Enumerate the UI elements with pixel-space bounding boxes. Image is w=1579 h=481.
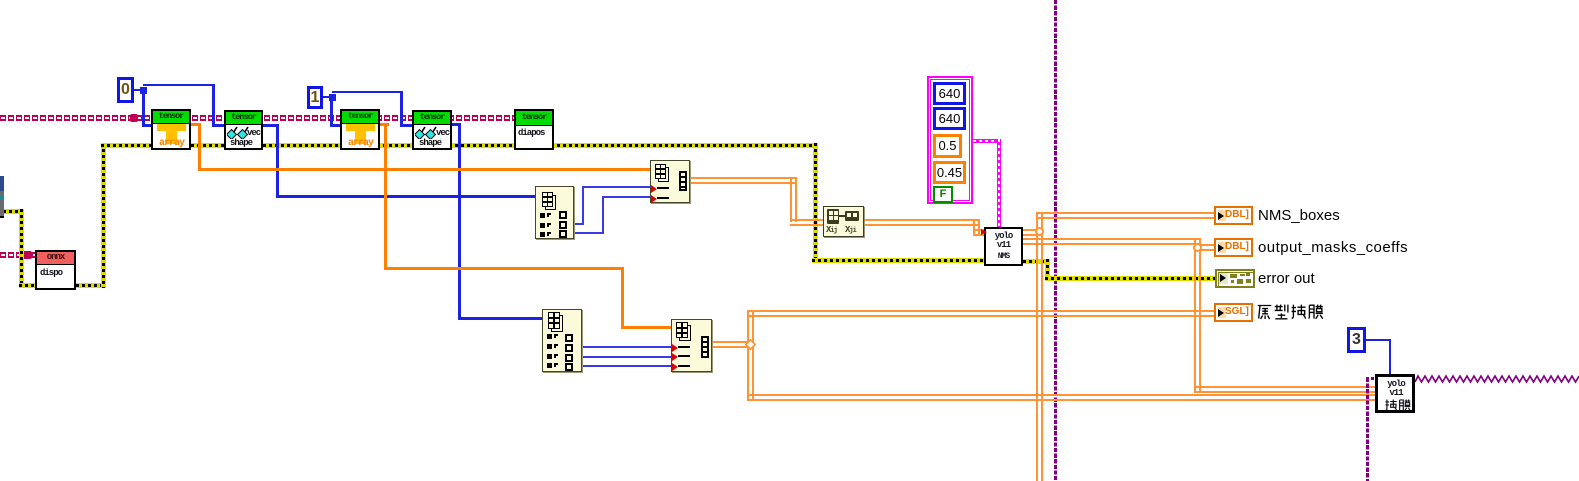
op: index array upper U7	[535, 186, 574, 239]
node: partial frame node at left edge	[0, 176, 4, 218]
wire: magenta dashed vertical into NMS top	[997, 139, 1001, 227]
op: tensor vec shape U4	[412, 110, 452, 150]
wire: orange double long horizontal y313 to SGL terminal	[747, 310, 1214, 317]
op: yolo v11 mask U13	[1375, 374, 1415, 413]
wire: blue out of vec-shape2	[452, 123, 461, 126]
constant 0	[117, 77, 134, 103]
wire: blue from 0 junction down	[142, 90, 145, 127]
wire: orange double out of subset-upper	[690, 177, 796, 184]
wire: orange vertical x200	[198, 123, 201, 171]
op: index array lower U9	[542, 309, 582, 372]
wire: error wire vertical up x103	[101, 143, 106, 288]
wire: blue from 0 junction right	[143, 84, 215, 86]
wire: blue vertical x214	[212, 84, 215, 127]
label prototype mask	[1257, 303, 1323, 320]
wire: blue vertical x277	[276, 124, 279, 198]
node: hollow junction circle on masks wire	[1193, 243, 1202, 252]
node: red input triangle on NMS	[981, 229, 987, 235]
constant cluster: NMS parameters	[927, 76, 973, 204]
wire: magenta dashed from cluster const	[973, 139, 1001, 143]
label error out	[1258, 270, 1315, 287]
wire: orange out of tensor-array2	[380, 123, 389, 126]
wire: blue vertical x1390 into mask node	[1389, 339, 1391, 374]
wire: purple image wire vertical full height	[1054, 0, 1057, 481]
wire: error wire horizontal to NMS	[812, 258, 1023, 263]
wire: cluster chain wire 1 (object wire to tensor nodes)	[0, 115, 514, 121]
wire: error wire out of NMS	[1023, 259, 1050, 264]
constant 1	[307, 86, 323, 109]
wire: orange double into mask node upper input	[1194, 386, 1375, 393]
wire: error wire out of onnx dispo	[76, 283, 106, 288]
constant 640 height	[933, 107, 966, 130]
op: tensor diapos U5	[514, 109, 554, 150]
wire: blue into vec-shape1	[212, 124, 224, 127]
wire: error wire vertical x1048	[1045, 259, 1050, 280]
wire: orange double vertical x977 jog	[973, 219, 980, 236]
wire: blue 3-const to mask node	[1365, 339, 1391, 341]
wire: blue 1-const to junction	[322, 96, 330, 98]
wire: blue into tensor-array1	[142, 124, 152, 127]
wire: orange double bracket vertical x750	[747, 310, 754, 401]
wire: blue into subset-upper input1	[582, 186, 650, 188]
constant 0.45 iou threshold	[933, 161, 966, 184]
constant F boolean false	[933, 186, 953, 203]
wire: orange double into transpose	[790, 219, 823, 226]
wire: orange double long horizontal y397 to mask node	[747, 394, 1375, 401]
node: junction dot of constant 1	[329, 94, 336, 101]
wire: orange double subset-lower output	[712, 341, 750, 348]
node: junction dot of constant 0	[140, 87, 147, 94]
wire: error wire into onnx dispo	[19, 283, 36, 288]
wire: orange vertical x386	[384, 123, 387, 270]
wire: blue index-lower out row4	[582, 365, 671, 367]
wire: orange out of tensor-array1	[191, 123, 201, 126]
wire: orange horizontal y269	[384, 267, 624, 270]
wire: blue from 1 junction down	[330, 99, 333, 127]
wire: orange vertical x622	[621, 267, 624, 329]
wire: blue array horizontal y196 to index-array-upper	[276, 195, 535, 198]
indicator: output_masks_coeffs DBL terminal	[1214, 238, 1253, 257]
wire: blue array horizontal y319 to index-array-lower	[458, 317, 542, 320]
constant 640 width	[933, 82, 966, 105]
wire: blue array vertical x459	[458, 123, 461, 320]
wire: purple dashed vertical x1367 below mask node	[1366, 378, 1369, 481]
wire: blue index-lower out row3	[582, 356, 671, 358]
wire: blue index-upper out row3	[574, 232, 604, 234]
op: onnx dispose U6	[35, 250, 76, 290]
wire: blue into tensor-array2	[330, 124, 341, 127]
wire: orange double NMS out1	[1023, 229, 1040, 236]
op: tensor vec shape U2	[224, 110, 263, 150]
indicator: prototype mask SGL terminal	[1214, 303, 1253, 322]
wire: error wire long horizontal y145	[101, 143, 818, 148]
wire: orange into subset-lower top	[621, 326, 671, 329]
wire: orange double into NMS input	[973, 229, 984, 236]
wire: orange double vertical x1197 jog down	[1194, 238, 1201, 252]
wire: orange double into masks terminal	[1194, 244, 1214, 251]
wire: orange double vertical x1040 down to bottom	[1036, 232, 1043, 481]
wire: blue from 1 junction right	[332, 91, 403, 93]
indicator: error out terminal	[1215, 269, 1255, 288]
node: chain wire 2 junction blob	[23, 251, 32, 259]
wire: blue out of vec-shape1	[263, 124, 279, 127]
node: hollow junction circle at NMS out1	[1035, 227, 1044, 236]
node: wire fork diamond at x750	[745, 339, 756, 350]
constant 0.5 conf threshold	[933, 134, 962, 158]
wire: orange long horizontal y170 to subset-upper	[198, 168, 650, 171]
label NMS_boxes	[1258, 207, 1340, 224]
wire: error wire vertical down x815	[813, 143, 818, 263]
op: tensor to array U3	[340, 109, 380, 150]
wire: orange double vertical x1040 up to y215	[1036, 212, 1043, 236]
wire: error wire to error out terminal	[1045, 276, 1216, 281]
node: chain wire 1 junction blob	[130, 114, 138, 122]
indicator: NMS_boxes DBL terminal	[1214, 206, 1253, 225]
wire: blue vertical x602 up	[602, 196, 604, 234]
op: tensor to array U1	[151, 109, 191, 150]
wire: blue index-lower out row2	[582, 346, 671, 348]
wire: orange double out of transpose	[863, 219, 980, 226]
wire: purple dashed elbow into mask node	[1366, 377, 1375, 380]
wire: blue into subset-upper input2	[602, 196, 650, 198]
label output_masks_coeffs	[1258, 239, 1408, 256]
wire: orange double NMS out2	[1023, 238, 1201, 245]
op: transpose 2D array U11	[823, 206, 864, 237]
wire: blue 0-const to junction	[134, 89, 142, 91]
wire: error wire from frame node to elbow	[3, 209, 23, 214]
wire: error wire vertical down x21	[19, 209, 24, 285]
constant 3	[1347, 327, 1366, 353]
op: array subset upper U8	[650, 160, 690, 203]
op: yolo v11 NMS U12	[984, 227, 1023, 266]
wire: orange double NMS_boxes horizontal y215	[1036, 212, 1214, 219]
wire: blue vertical x402	[400, 91, 403, 127]
wire: orange double vertical x793	[790, 177, 797, 222]
wire: blue index-upper out row2	[574, 223, 584, 225]
wire: purple squiggle wire right of mask node	[1415, 374, 1579, 384]
wire: blue vertical x582 up	[582, 186, 584, 225]
wire: orange double vertical x1197 down	[1194, 248, 1201, 393]
wire: blue into vec-shape2	[400, 124, 413, 127]
wire: cluster chain wire 2 (object wire to onnx dispo)	[0, 252, 35, 258]
op: array subset lower U10	[671, 319, 712, 372]
